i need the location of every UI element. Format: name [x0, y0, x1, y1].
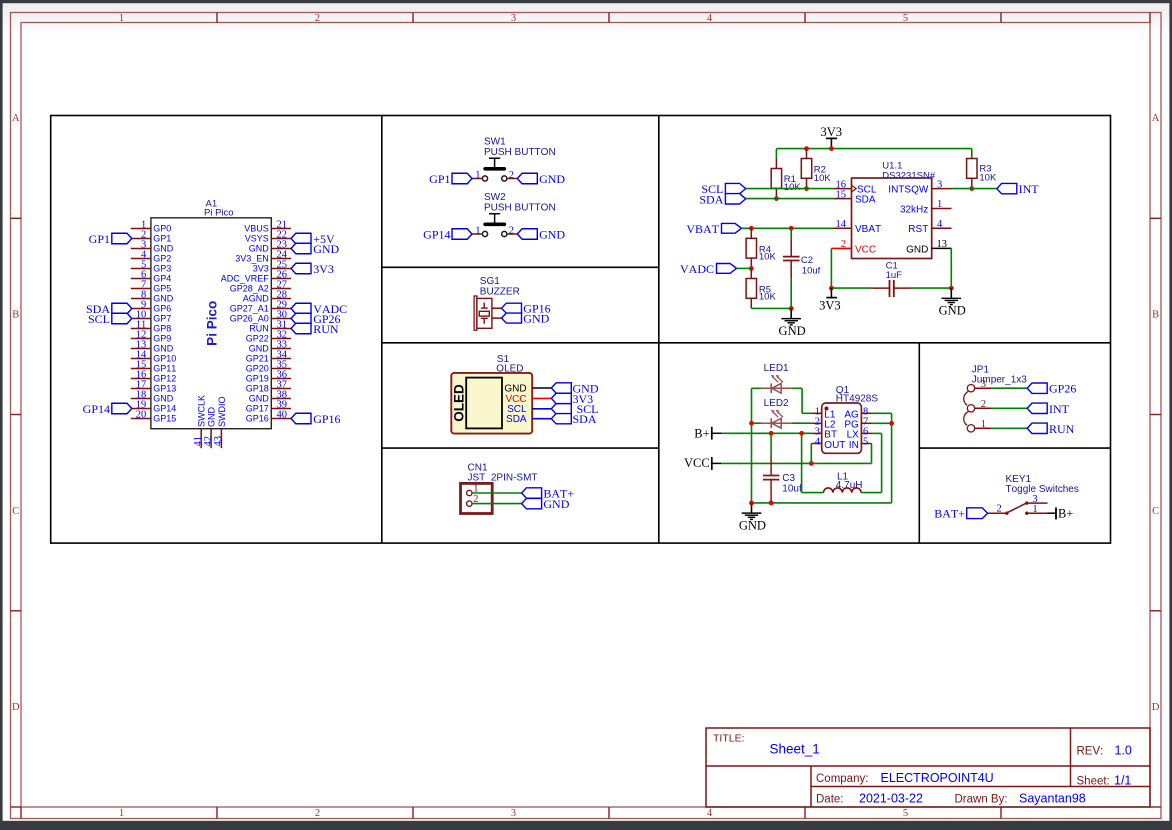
svg-text:OLED: OLED — [451, 384, 466, 422]
svg-text:VBAT: VBAT — [855, 224, 881, 235]
svg-text:RST: RST — [908, 224, 928, 235]
svg-text:GP1: GP1 — [89, 232, 110, 246]
svg-text:GND: GND — [249, 344, 270, 354]
svg-text:PUSH BUTTON: PUSH BUTTON — [484, 147, 556, 158]
svg-text:4: 4 — [937, 219, 943, 230]
svg-text:GND: GND — [539, 227, 565, 241]
svg-text:GP28_A2: GP28_A2 — [230, 284, 269, 294]
svg-text:REV:: REV: — [1077, 746, 1104, 758]
svg-text:10uf: 10uf — [782, 484, 802, 495]
svg-text:1/1: 1/1 — [1114, 773, 1131, 787]
svg-text:GND: GND — [153, 394, 174, 404]
svg-text:GP22: GP22 — [246, 334, 269, 344]
svg-text:GP10: GP10 — [153, 354, 176, 364]
svg-text:TITLE:: TITLE: — [713, 733, 745, 745]
svg-text:INT: INT — [1019, 182, 1040, 196]
svg-text:OUT: OUT — [824, 440, 845, 451]
svg-text:LED2: LED2 — [764, 398, 789, 409]
svg-text:2021-03-22: 2021-03-22 — [859, 792, 923, 806]
svg-text:SDA: SDA — [855, 195, 876, 206]
svg-text:D: D — [12, 702, 20, 713]
svg-text:SWCLK: SWCLK — [197, 395, 207, 427]
svg-text:SWDIO: SWDIO — [217, 397, 227, 428]
svg-text:GND: GND — [543, 497, 569, 511]
svg-text:5: 5 — [863, 437, 868, 448]
svg-text:GND: GND — [153, 294, 174, 304]
svg-text:1: 1 — [1032, 504, 1037, 515]
svg-text:2: 2 — [981, 399, 986, 410]
svg-text:SCL: SCL — [88, 312, 110, 326]
svg-text:Date:: Date: — [816, 794, 844, 806]
svg-text:4.7uH: 4.7uH — [836, 480, 863, 491]
svg-text:B: B — [12, 310, 19, 321]
svg-text:Company:: Company: — [816, 773, 868, 785]
svg-text:GP14: GP14 — [153, 404, 176, 414]
svg-text:RUN: RUN — [1049, 422, 1075, 436]
svg-text:SDA: SDA — [506, 414, 527, 425]
svg-text:4: 4 — [815, 437, 821, 448]
svg-text:GND: GND — [249, 244, 270, 254]
svg-text:C: C — [12, 506, 19, 517]
svg-text:ADC_VREF: ADC_VREF — [221, 274, 270, 284]
svg-text:1: 1 — [475, 226, 480, 237]
svg-text:VCC: VCC — [684, 456, 710, 470]
svg-text:SDA: SDA — [573, 412, 597, 426]
svg-text:C3: C3 — [782, 473, 795, 484]
svg-text:GND: GND — [249, 394, 270, 404]
svg-text:IN: IN — [849, 440, 859, 451]
svg-text:14: 14 — [836, 219, 847, 230]
svg-text:A: A — [1152, 113, 1160, 124]
svg-text:10K: 10K — [759, 252, 777, 263]
svg-text:10uf: 10uf — [802, 266, 821, 277]
svg-text:5: 5 — [903, 13, 908, 24]
svg-text:GND: GND — [504, 383, 526, 394]
svg-text:15: 15 — [836, 189, 847, 200]
svg-text:BAT+: BAT+ — [934, 506, 965, 520]
svg-text:1.0: 1.0 — [1115, 744, 1132, 758]
svg-text:1: 1 — [475, 170, 480, 181]
svg-text:GND: GND — [539, 172, 565, 186]
svg-text:GND: GND — [313, 242, 339, 256]
svg-text:1uF: 1uF — [886, 270, 903, 281]
svg-text:4: 4 — [707, 808, 713, 819]
svg-text:20: 20 — [136, 409, 147, 420]
svg-text:GP14: GP14 — [423, 227, 450, 241]
svg-text:GND: GND — [207, 407, 217, 428]
svg-text:10K: 10K — [814, 173, 832, 184]
svg-text:RUN: RUN — [313, 322, 339, 336]
svg-text:5: 5 — [903, 808, 908, 819]
svg-text:GP9: GP9 — [153, 334, 171, 344]
svg-text:Sheet_1: Sheet_1 — [770, 742, 820, 757]
svg-text:VCC: VCC — [855, 244, 876, 255]
svg-text:1: 1 — [119, 13, 124, 24]
svg-text:C2: C2 — [801, 255, 813, 266]
svg-text:GP15: GP15 — [153, 414, 176, 424]
svg-text:GP27_A1: GP27_A1 — [230, 304, 269, 314]
svg-text:GND: GND — [739, 518, 766, 532]
svg-text:Drawn By:: Drawn By: — [955, 794, 1008, 806]
svg-text:VADC: VADC — [680, 262, 714, 276]
svg-text:VBAT: VBAT — [686, 222, 719, 236]
svg-text:GND: GND — [153, 344, 174, 354]
svg-text:GP3: GP3 — [153, 264, 171, 274]
svg-text:3: 3 — [937, 179, 942, 190]
svg-text:32kHz: 32kHz — [900, 204, 928, 215]
svg-text:B: B — [1152, 310, 1159, 321]
svg-text:3V3: 3V3 — [819, 298, 841, 312]
svg-text:BUZZER: BUZZER — [480, 286, 520, 297]
svg-text:AGND: AGND — [243, 294, 270, 304]
svg-text:SDA: SDA — [699, 192, 723, 206]
svg-text:PUSH BUTTON: PUSH BUTTON — [484, 203, 556, 214]
svg-text:3: 3 — [981, 379, 986, 390]
svg-text:2: 2 — [315, 13, 320, 24]
svg-text:GP16: GP16 — [246, 414, 269, 424]
svg-text:Pi Pico: Pi Pico — [204, 207, 234, 218]
svg-text:B+: B+ — [1058, 506, 1073, 520]
svg-text:3: 3 — [511, 13, 516, 24]
svg-text:GND: GND — [523, 311, 549, 325]
svg-text:Sayantan98: Sayantan98 — [1019, 792, 1086, 806]
svg-text:GP20: GP20 — [246, 364, 269, 374]
svg-text:GP17: GP17 — [246, 404, 269, 414]
svg-text:GP2: GP2 — [153, 254, 171, 264]
svg-text:10K: 10K — [759, 292, 777, 303]
svg-text:GP16: GP16 — [313, 412, 340, 426]
svg-text:SW2: SW2 — [484, 192, 506, 203]
svg-text:GND: GND — [939, 304, 966, 318]
svg-text:Sheet:: Sheet: — [1077, 775, 1110, 787]
svg-text:GP7: GP7 — [153, 314, 171, 324]
svg-text:Toggle Switches: Toggle Switches — [1006, 484, 1079, 495]
svg-text:GP21: GP21 — [246, 354, 269, 364]
svg-text:GP5: GP5 — [153, 284, 171, 294]
svg-text:3V3: 3V3 — [313, 262, 334, 276]
svg-text:3V3: 3V3 — [821, 125, 843, 139]
svg-text:2: 2 — [315, 808, 320, 819]
svg-text:GP0: GP0 — [153, 224, 171, 234]
svg-text:A: A — [12, 113, 20, 124]
svg-text:GP14: GP14 — [83, 402, 110, 416]
svg-text:1: 1 — [937, 199, 942, 210]
svg-text:B+: B+ — [694, 427, 709, 441]
svg-text:INT: INT — [1049, 402, 1070, 416]
svg-text:GP12: GP12 — [153, 374, 176, 384]
svg-text:2: 2 — [509, 226, 514, 237]
svg-text:GND: GND — [779, 324, 806, 338]
svg-text:LED1: LED1 — [764, 363, 789, 374]
svg-text:4: 4 — [707, 13, 713, 24]
svg-text:DS3231SN#: DS3231SN# — [882, 170, 936, 181]
svg-text:SW1: SW1 — [484, 137, 506, 148]
svg-text:GP18: GP18 — [246, 384, 269, 394]
svg-text:3V3_EN: 3V3_EN — [235, 254, 269, 264]
svg-text:VBUS: VBUS — [244, 224, 269, 234]
svg-text:3V3: 3V3 — [253, 264, 269, 274]
svg-text:43: 43 — [213, 436, 224, 447]
svg-text:GND: GND — [153, 244, 174, 254]
svg-text:GND: GND — [906, 244, 928, 255]
svg-text:40: 40 — [277, 409, 288, 420]
svg-text:Pi Pico: Pi Pico — [205, 301, 220, 346]
svg-text:RUN: RUN — [249, 324, 269, 334]
svg-text:GP1: GP1 — [429, 172, 450, 186]
svg-text:1: 1 — [981, 419, 986, 430]
svg-text:GP26: GP26 — [1049, 382, 1076, 396]
svg-text:1: 1 — [119, 808, 124, 819]
svg-text:GP11: GP11 — [153, 364, 176, 374]
svg-text:10K: 10K — [979, 172, 997, 183]
svg-text:GP6: GP6 — [153, 304, 171, 314]
svg-text:GP1: GP1 — [153, 234, 171, 244]
svg-text:VCC: VCC — [505, 394, 526, 405]
svg-text:2: 2 — [841, 239, 846, 250]
svg-text:10K: 10K — [784, 182, 802, 193]
svg-text:GP19: GP19 — [246, 374, 269, 384]
svg-text:GP13: GP13 — [153, 384, 176, 394]
svg-text:2: 2 — [509, 170, 514, 181]
svg-text:2: 2 — [997, 504, 1002, 515]
svg-text:VSYS: VSYS — [245, 234, 269, 244]
svg-text:D: D — [1152, 702, 1160, 713]
svg-text:JST_2PIN-SMT: JST_2PIN-SMT — [468, 473, 538, 484]
svg-text:HT4928S: HT4928S — [836, 394, 879, 405]
svg-text:GP4: GP4 — [153, 274, 171, 284]
svg-text:GP8: GP8 — [153, 324, 171, 334]
svg-text:ELECTROPOINT4U: ELECTROPOINT4U — [881, 771, 994, 785]
svg-text:INTSQW: INTSQW — [888, 184, 929, 195]
svg-text:GP26_A0: GP26_A0 — [230, 314, 269, 324]
svg-text:C: C — [1152, 506, 1159, 517]
svg-text:3: 3 — [511, 808, 516, 819]
svg-text:13: 13 — [937, 239, 948, 250]
